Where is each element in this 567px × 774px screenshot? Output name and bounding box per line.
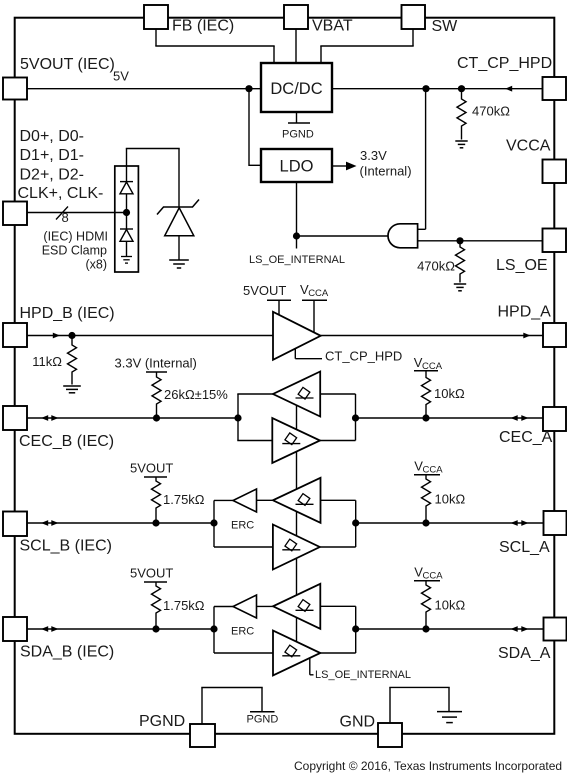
svg-text:HPD_A: HPD_A [498,304,552,321]
svg-text:CT_CP_HPD: CT_CP_HPD [325,349,402,364]
svg-text:CCA: CCA [308,288,329,299]
svg-text:470kΩ: 470kΩ [417,258,455,273]
svg-text:CEC_A: CEC_A [499,429,553,446]
svg-text:8: 8 [62,210,69,225]
svg-text:D2+, D2-: D2+, D2- [20,166,84,183]
svg-text:CLK+, CLK-: CLK+, CLK- [18,185,104,202]
svg-text:LDO: LDO [280,158,314,176]
svg-text:LS_OE_INTERNAL: LS_OE_INTERNAL [315,669,411,681]
svg-text:CCA: CCA [423,571,444,582]
svg-text:D1+, D1-: D1+, D1- [20,147,84,164]
svg-text:D0+, D0-: D0+, D0- [20,128,84,145]
svg-text:VBAT: VBAT [312,18,353,35]
svg-text:PGND: PGND [139,713,185,730]
svg-text:LS_OE_INTERNAL: LS_OE_INTERNAL [249,254,345,266]
svg-text:HPD_B (IEC): HPD_B (IEC) [20,305,115,322]
svg-text:5VOUT: 5VOUT [130,566,173,581]
svg-text:5VOUT: 5VOUT [130,461,173,476]
svg-text:PGND: PGND [247,714,279,726]
svg-text:3.3V: 3.3V [360,148,387,163]
svg-text:(IEC) HDMI: (IEC) HDMI [43,229,108,243]
svg-text:GND: GND [340,714,376,731]
svg-text:ERC: ERC [231,520,254,532]
svg-text:SCL_A: SCL_A [499,539,550,556]
svg-text:VCCA: VCCA [506,138,551,155]
svg-text:ESD Clamp: ESD Clamp [42,243,107,257]
svg-text:SW: SW [432,18,459,35]
svg-text:470kΩ: 470kΩ [472,104,510,119]
svg-text:CCA: CCA [423,465,444,476]
svg-text:10kΩ: 10kΩ [435,492,466,507]
svg-text:DC/DC: DC/DC [270,80,322,98]
svg-text:5VOUT (IEC): 5VOUT (IEC) [20,56,115,73]
svg-text:5V: 5V [113,69,129,84]
svg-text:LS_OE: LS_OE [496,257,548,274]
svg-text:1.75kΩ: 1.75kΩ [163,492,205,507]
svg-text:CCA: CCA [422,361,443,372]
svg-text:SDA_A: SDA_A [498,645,551,662]
svg-text:PGND: PGND [282,129,314,141]
svg-text:CEC_B (IEC): CEC_B (IEC) [19,433,114,450]
svg-text:10kΩ: 10kΩ [434,386,465,401]
svg-text:ERC: ERC [231,626,254,638]
svg-text:(x8): (x8) [85,258,107,272]
svg-text:SCL_B (IEC): SCL_B (IEC) [20,538,112,555]
svg-text:26kΩ±15%: 26kΩ±15% [164,387,228,402]
svg-text:Copyright © 2016, Texas Instru: Copyright © 2016, Texas Instruments Inco… [294,759,562,773]
svg-text:10kΩ: 10kΩ [435,598,466,613]
svg-text:3.3V (Internal): 3.3V (Internal) [115,356,197,371]
svg-text:(Internal): (Internal) [360,163,412,178]
svg-text:SDA_B (IEC): SDA_B (IEC) [20,644,114,661]
svg-text:5VOUT: 5VOUT [243,283,286,298]
svg-text:FB (IEC): FB (IEC) [172,18,234,35]
svg-text:1.75kΩ: 1.75kΩ [163,598,205,613]
svg-text:CT_CP_HPD: CT_CP_HPD [457,55,552,72]
svg-text:11kΩ: 11kΩ [32,354,62,369]
